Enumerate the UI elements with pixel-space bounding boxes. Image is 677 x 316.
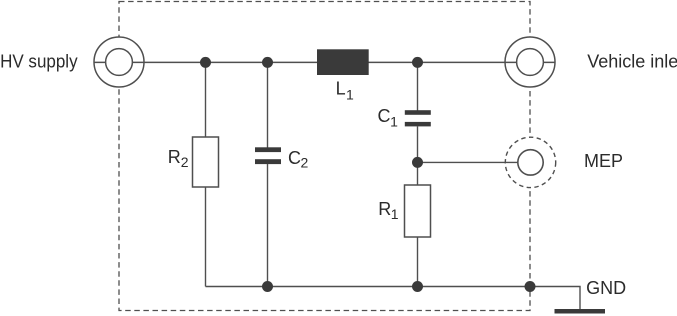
svg-text:2: 2 — [301, 155, 309, 171]
svg-text:C: C — [288, 148, 301, 168]
wire: C1 branch top — [417, 62, 419, 110]
svg-text:1: 1 — [391, 206, 399, 222]
svg-text:L: L — [336, 79, 346, 99]
terminal HV supply (inner circle) — [106, 49, 133, 76]
svg-text:Vehicle inlet: Vehicle inlet — [587, 51, 677, 71]
terminal Vehicle inlet (outer circle) — [505, 37, 555, 87]
capacitor C2 — [255, 147, 281, 164]
wire: top rail — [94, 61, 555, 63]
svg-text:HV supply: HV supply — [0, 51, 78, 71]
terminal MEP (inner circle) — [518, 150, 543, 175]
svg-text:GND: GND — [586, 278, 626, 298]
ground bar — [555, 309, 606, 314]
terminal Vehicle inlet (inner circle) — [517, 49, 544, 76]
label L1 — [336, 79, 354, 103]
node dot (top rail / R2) — [200, 57, 211, 68]
node dot (bottom rail / C2) — [262, 281, 273, 292]
label C2 — [288, 148, 309, 171]
node dot (bottom rail / R1) — [412, 281, 423, 292]
wire: C2 branch bottom — [267, 164, 269, 287]
node dot (bottom rail / border exit) — [525, 281, 536, 292]
svg-text:MEP: MEP — [584, 151, 623, 171]
svg-text:2: 2 — [181, 154, 189, 170]
label R2 — [168, 147, 189, 170]
svg-text:R: R — [168, 147, 181, 167]
svg-text:1: 1 — [390, 113, 398, 129]
dashed enclosure border — [119, 2, 530, 311]
wire: bottom rail — [206, 287, 581, 311]
node dot (top rail / C2) — [262, 57, 273, 68]
wire: C2 branch top — [267, 62, 269, 147]
wire: R2 branch bottom — [205, 187, 207, 287]
svg-text:1: 1 — [346, 87, 354, 103]
svg-text:R: R — [378, 199, 391, 219]
svg-text:C: C — [378, 106, 391, 126]
resistor R2 — [193, 137, 219, 187]
inductor L1 — [317, 49, 369, 75]
resistor R1 — [405, 185, 431, 237]
label C1 — [378, 106, 399, 129]
terminal MEP (outer dashed circle) — [505, 137, 555, 187]
wire: node to MEP — [418, 161, 519, 163]
wire: R2 branch top — [205, 62, 207, 137]
node dot (C1-R1-MEP junction) — [412, 157, 423, 168]
wire: R1 bottom — [417, 237, 419, 287]
terminal HV supply (outer circle) — [94, 37, 144, 87]
capacitor C1 — [405, 110, 431, 126]
label R1 — [378, 199, 399, 222]
wire: C1 to node — [417, 126, 419, 185]
node dot (top rail / C1) — [412, 57, 423, 68]
